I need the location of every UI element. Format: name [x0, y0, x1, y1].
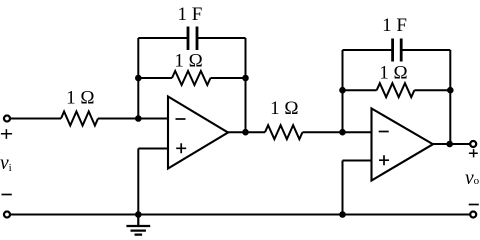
junction dot U2 output node — [446, 141, 453, 148]
wire feedback left vertical stage2 — [342, 50, 344, 132]
wire input to R1 — [10, 118, 61, 120]
op-amp U2 triangle — [372, 109, 434, 181]
svg-text:1 Ω: 1 Ω — [174, 51, 202, 72]
wire U1 plus input down to ground rail — [137, 149, 139, 215]
wire cap row right stage2 — [401, 49, 450, 51]
junction dot U2 plus rail node — [339, 211, 346, 218]
op-amp U1 plus sign — [176, 143, 186, 153]
terminal plus sign (input) — [1, 129, 12, 139]
terminal plus sign (output) — [469, 149, 478, 157]
wire cap row left stage1 — [138, 37, 188, 39]
op-amp U2 plus sign — [379, 155, 389, 165]
capacitor C2 1F plates — [393, 39, 402, 62]
wire cap row left stage2 — [343, 49, 393, 51]
wire cap row right stage1 — [197, 37, 246, 39]
wire U1 output — [228, 131, 265, 133]
wire resistor row left stage1 — [138, 77, 172, 79]
resistor R_in 1ohm zigzag — [61, 112, 98, 126]
junction dot U1 output node — [242, 129, 249, 136]
resistor R_f2 1ohm zigzag — [377, 83, 415, 97]
op-amp U1 minus sign — [176, 118, 186, 120]
svg-text:1 F: 1 F — [177, 4, 202, 25]
input terminal bottom (open circle) — [4, 212, 10, 218]
wire feedback right vertical stage2 — [449, 50, 451, 144]
junction dot resistor row left stage1 — [135, 75, 142, 82]
resistor R_f1 1ohm zigzag — [172, 71, 211, 85]
wire feedback right vertical stage1 — [245, 38, 247, 132]
op-amp U2 minus sign — [379, 131, 389, 133]
wire R_in to op-amp U1 minus input — [98, 118, 168, 120]
bottom rail wire — [10, 214, 470, 216]
output terminal bottom (open circle) — [470, 212, 476, 218]
node B junction dot — [339, 129, 346, 136]
wire feedback left vertical stage1 — [137, 38, 139, 119]
svg-text:1 Ω: 1 Ω — [66, 87, 94, 108]
wire resistor row right stage2 — [414, 89, 450, 91]
wire resistor row right stage1 — [211, 77, 246, 79]
wire resistor row left stage2 — [343, 89, 377, 91]
wire U2 output — [433, 143, 470, 145]
junction dot resistor row right stage2 — [447, 87, 454, 94]
terminal minus sign (output) — [469, 204, 479, 206]
svg-text:1 F: 1 F — [382, 15, 407, 36]
svg-text:1 Ω: 1 Ω — [270, 98, 298, 119]
junction dot ground node — [135, 211, 142, 218]
input terminal top (open circle) — [4, 116, 10, 122]
svg-text:1 Ω: 1 Ω — [379, 63, 407, 84]
wire U2 plus input down to ground rail — [342, 161, 344, 215]
capacitor C1 1F plates — [188, 27, 197, 51]
svg-text:vi: vi — [0, 153, 12, 174]
node A junction dot — [135, 115, 142, 122]
output terminal top (open circle) — [470, 141, 476, 147]
junction dot resistor row left stage2 — [339, 87, 346, 94]
ground symbol — [126, 215, 150, 235]
junction dot resistor row right stage1 — [242, 75, 249, 82]
wire R_mid to op-amp U2 minus input — [303, 131, 372, 133]
svg-text:vo: vo — [465, 168, 480, 189]
wire U2 plus input horizontal — [343, 160, 372, 162]
op-amp U1 triangle — [168, 97, 228, 169]
resistor R_mid 1ohm zigzag — [265, 125, 303, 139]
terminal minus sign (input) — [2, 194, 12, 196]
wire U1 plus input horizontal — [138, 148, 168, 150]
